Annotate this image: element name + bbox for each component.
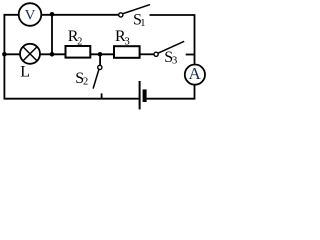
resistor R2 (box) xyxy=(66,46,91,58)
voltmeter V (meter circle) xyxy=(19,3,42,26)
wire: S2 fixed contact stub to bottom wire xyxy=(101,93,103,98)
battery cell: short thick negative plate xyxy=(143,89,147,102)
ammeter A (meter circle) xyxy=(185,65,205,85)
switch S3 blade (open) xyxy=(158,41,184,53)
node: junction dot between R2 and R3 (S2 branch tap) xyxy=(98,52,103,57)
resistor R3 (box) xyxy=(114,46,140,58)
svg-text:V: V xyxy=(25,7,36,23)
wire: R2 to R3 xyxy=(90,53,114,55)
wire: left edge lower segment, bottom-left corner, bottom wire to battery positive plate xyxy=(4,54,138,98)
svg-text:L: L xyxy=(20,64,30,81)
switch S2 blade (open) xyxy=(93,69,99,88)
wire: S1 fixed contact to top-right corner, down right edge to ammeter xyxy=(150,15,195,65)
wire: S2 branch drop from junction to pivot xyxy=(99,54,101,65)
wire: voltmeter right terminal to S1 pivot xyxy=(41,14,119,16)
svg-text:A: A xyxy=(188,64,201,83)
wire: S3 fixed contact to right edge xyxy=(186,54,195,56)
wire: ammeter bottom to bottom-right corner, bottom wire to battery negative plate xyxy=(147,85,195,99)
switch S1 pivot circle xyxy=(119,13,123,17)
node: junction dot above lamp (voltmeter right) xyxy=(50,12,55,17)
node: junction dot on left edge at lamp row xyxy=(2,52,7,57)
switch S1 blade (open) xyxy=(123,5,150,14)
battery cell: long positive plate xyxy=(139,81,141,109)
switch S2 pivot circle xyxy=(98,65,102,69)
wire: lamp left lead xyxy=(4,53,20,55)
wire: vertical link from top junction down to lamp-row junction xyxy=(51,15,53,55)
wire: R3 right lead to S3 pivot xyxy=(140,53,155,55)
wire: lamp right lead to resistor R2 xyxy=(40,53,66,55)
node: junction dot right of lamp xyxy=(50,52,55,57)
lamp L (circle with X) xyxy=(20,44,40,64)
wire: top-left lead from voltmeter, left edge down to lamp node xyxy=(4,15,18,54)
switch S3 pivot circle xyxy=(154,52,158,56)
